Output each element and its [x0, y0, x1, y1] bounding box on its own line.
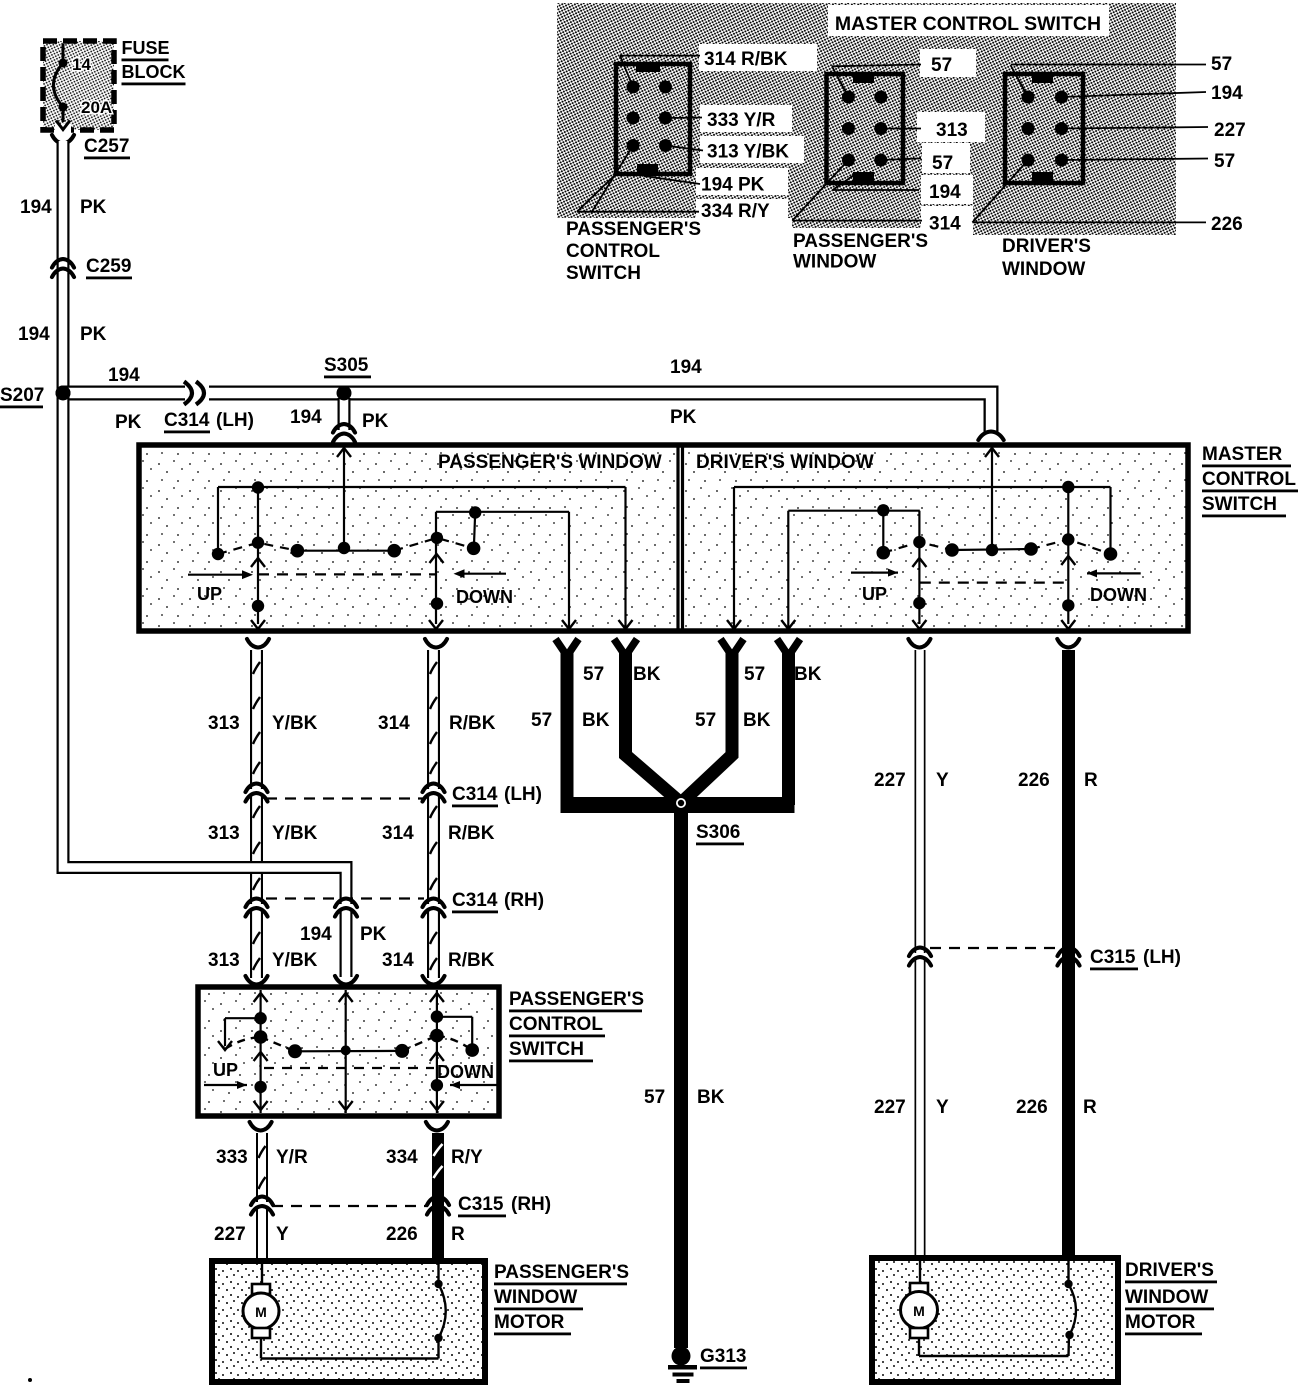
svg-text:BK: BK	[582, 710, 610, 731]
svg-text:57: 57	[531, 710, 552, 731]
svg-text:194: 194	[670, 357, 702, 378]
svg-text:313 Y/BK: 313 Y/BK	[707, 142, 789, 163]
svg-text:194 PK: 194 PK	[701, 175, 765, 196]
svg-text:WINDOW: WINDOW	[1002, 259, 1085, 280]
svg-text:C314: C314	[452, 784, 498, 805]
svg-text:PASSENGER'S: PASSENGER'S	[793, 231, 928, 252]
svg-text:S207: S207	[0, 385, 44, 406]
svg-text:PK: PK	[360, 924, 387, 945]
svg-text:M: M	[255, 1304, 267, 1320]
svg-text:MOTOR: MOTOR	[494, 1312, 565, 1333]
svg-text:BLOCK: BLOCK	[122, 62, 186, 82]
svg-text:R: R	[1083, 1097, 1097, 1118]
svg-text:G313: G313	[700, 1346, 746, 1367]
svg-text:313: 313	[208, 713, 240, 734]
svg-text:S306: S306	[696, 822, 740, 843]
svg-text:DOWN: DOWN	[1090, 585, 1147, 605]
svg-text:226: 226	[1016, 1097, 1048, 1118]
svg-text:Y: Y	[936, 1097, 949, 1118]
svg-text:SWITCH: SWITCH	[1202, 494, 1277, 515]
svg-text:Y: Y	[276, 1224, 289, 1245]
svg-text:313: 313	[208, 950, 240, 971]
svg-text:DRIVER'S: DRIVER'S	[1002, 236, 1091, 257]
svg-text:57: 57	[932, 153, 953, 174]
svg-text:R: R	[451, 1224, 465, 1245]
svg-text:314: 314	[382, 950, 414, 971]
svg-text:CONTROL: CONTROL	[509, 1014, 603, 1035]
svg-text:227: 227	[214, 1224, 246, 1245]
svg-text:DRIVER'S: DRIVER'S	[1125, 1260, 1214, 1281]
svg-text:57: 57	[931, 55, 952, 76]
svg-text:57: 57	[1211, 54, 1232, 75]
svg-text:R/BK: R/BK	[448, 950, 495, 971]
svg-text:C314: C314	[452, 890, 498, 911]
svg-text:(LH): (LH)	[504, 784, 542, 805]
svg-text:BK: BK	[633, 664, 661, 685]
svg-text:PK: PK	[80, 197, 107, 218]
svg-text:SWITCH: SWITCH	[566, 263, 641, 284]
svg-text:314: 314	[378, 713, 410, 734]
svg-text:R/BK: R/BK	[449, 713, 496, 734]
svg-text:C315: C315	[458, 1194, 504, 1215]
svg-text:194: 194	[929, 182, 961, 203]
svg-text:226: 226	[1211, 214, 1243, 235]
svg-text:BK: BK	[743, 710, 771, 731]
svg-text:314 R/BK: 314 R/BK	[704, 49, 788, 70]
svg-text:MASTER CONTROL SWITCH: MASTER CONTROL SWITCH	[835, 13, 1101, 35]
svg-text:227: 227	[1214, 120, 1246, 141]
svg-text:194: 194	[290, 407, 322, 428]
svg-text:PASSENGER'S: PASSENGER'S	[494, 1262, 629, 1283]
svg-text:(RH): (RH)	[511, 1194, 551, 1215]
svg-text:CONTROL: CONTROL	[1202, 469, 1296, 490]
svg-text:14: 14	[72, 55, 91, 74]
svg-text:R: R	[1084, 770, 1098, 791]
svg-text:DRIVER'S WINDOW: DRIVER'S WINDOW	[696, 452, 874, 473]
svg-text:PK: PK	[115, 412, 142, 433]
svg-text:UP: UP	[862, 584, 887, 604]
svg-text:57: 57	[644, 1087, 665, 1108]
svg-text:PASSENGER'S: PASSENGER'S	[509, 989, 644, 1010]
svg-text:194: 194	[1211, 83, 1243, 104]
svg-text:S305: S305	[324, 355, 369, 376]
svg-text:314: 314	[929, 214, 961, 235]
svg-text:BK: BK	[794, 664, 822, 685]
svg-text:C315: C315	[1090, 947, 1136, 968]
svg-text:(RH): (RH)	[504, 890, 544, 911]
svg-text:C257: C257	[84, 136, 129, 157]
svg-text:333: 333	[216, 1147, 248, 1168]
svg-text:57: 57	[744, 664, 765, 685]
svg-text:DOWN: DOWN	[456, 587, 513, 607]
svg-text:(LH): (LH)	[216, 410, 254, 431]
svg-text:194: 194	[108, 365, 140, 386]
svg-text:WINDOW: WINDOW	[793, 252, 876, 273]
svg-text:227: 227	[874, 770, 906, 791]
svg-text:UP: UP	[213, 1060, 238, 1080]
svg-text:R/Y: R/Y	[451, 1147, 483, 1168]
svg-text:194: 194	[20, 197, 52, 218]
svg-text:226: 226	[1018, 770, 1050, 791]
svg-text:MASTER: MASTER	[1202, 444, 1283, 465]
svg-text:PK: PK	[362, 411, 389, 432]
svg-text:WINDOW: WINDOW	[494, 1287, 577, 1308]
svg-text:194: 194	[300, 924, 332, 945]
svg-text:BK: BK	[697, 1087, 725, 1108]
svg-text:Y: Y	[936, 770, 949, 791]
svg-text:227: 227	[874, 1097, 906, 1118]
svg-text:314: 314	[382, 823, 414, 844]
svg-text:313: 313	[936, 120, 968, 141]
svg-text:FUSE: FUSE	[122, 38, 170, 58]
svg-text:194: 194	[18, 324, 50, 345]
svg-text:Y/BK: Y/BK	[272, 950, 318, 971]
svg-text:MOTOR: MOTOR	[1125, 1312, 1196, 1333]
svg-text:(LH): (LH)	[1143, 947, 1181, 968]
svg-text:226: 226	[386, 1224, 418, 1245]
svg-text:57: 57	[695, 710, 716, 731]
svg-text:PASSENGER'S WINDOW: PASSENGER'S WINDOW	[438, 452, 662, 473]
svg-text:R/BK: R/BK	[448, 823, 495, 844]
svg-text:PASSENGER'S: PASSENGER'S	[566, 219, 701, 240]
svg-text:57: 57	[583, 664, 604, 685]
svg-text:DOWN: DOWN	[437, 1062, 494, 1082]
svg-text:PK: PK	[80, 324, 107, 345]
svg-text:PK: PK	[670, 407, 697, 428]
svg-text:Y/R: Y/R	[276, 1147, 308, 1168]
svg-text:333 Y/R: 333 Y/R	[707, 110, 776, 131]
svg-text:CONTROL: CONTROL	[566, 241, 660, 262]
svg-text:SWITCH: SWITCH	[509, 1039, 584, 1060]
svg-text:C259: C259	[86, 256, 131, 277]
svg-text:Y/BK: Y/BK	[272, 713, 318, 734]
svg-text:334 R/Y: 334 R/Y	[701, 201, 770, 222]
svg-text:20A: 20A	[81, 98, 112, 117]
svg-text:WINDOW: WINDOW	[1125, 1287, 1208, 1308]
svg-text:Y/BK: Y/BK	[272, 823, 318, 844]
svg-text:UP: UP	[197, 584, 222, 604]
svg-text:334: 334	[386, 1147, 418, 1168]
svg-text:57: 57	[1214, 151, 1235, 172]
svg-text:313: 313	[208, 823, 240, 844]
svg-text:M: M	[913, 1303, 925, 1319]
svg-text:C314: C314	[164, 410, 210, 431]
